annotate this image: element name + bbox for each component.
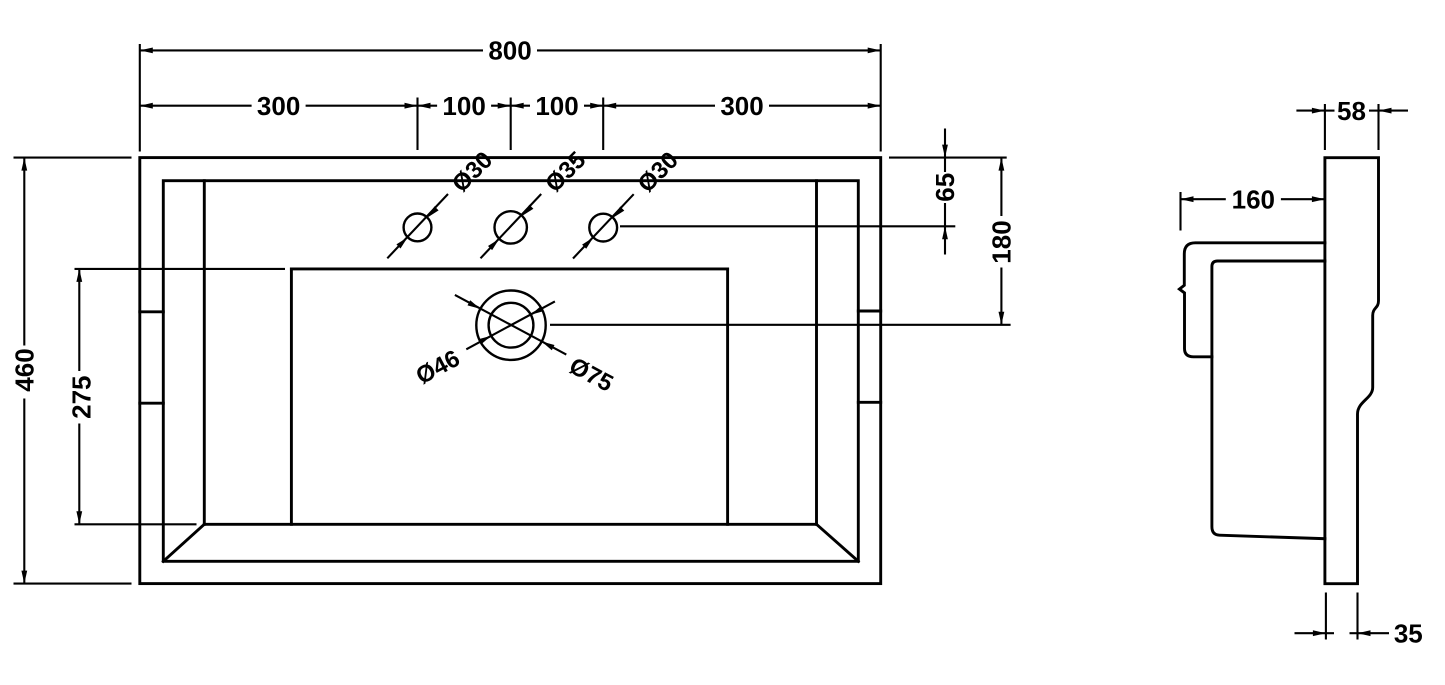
svg-text:Ø46: Ø46 — [412, 345, 465, 390]
svg-text:800: 800 — [488, 36, 531, 66]
svg-text:65: 65 — [930, 173, 960, 202]
svg-text:300: 300 — [720, 91, 763, 121]
svg-text:100: 100 — [535, 91, 578, 121]
svg-text:Ø35: Ø35 — [540, 147, 591, 198]
svg-text:58: 58 — [1337, 96, 1366, 126]
svg-text:Ø30: Ø30 — [633, 147, 684, 198]
svg-text:300: 300 — [257, 91, 300, 121]
svg-text:35: 35 — [1394, 618, 1423, 648]
svg-text:Ø30: Ø30 — [447, 147, 498, 198]
svg-text:Ø75: Ø75 — [565, 352, 618, 397]
svg-text:460: 460 — [10, 348, 40, 391]
svg-text:160: 160 — [1232, 184, 1275, 214]
svg-text:275: 275 — [67, 376, 97, 419]
svg-text:100: 100 — [442, 91, 485, 121]
svg-text:180: 180 — [987, 220, 1017, 263]
